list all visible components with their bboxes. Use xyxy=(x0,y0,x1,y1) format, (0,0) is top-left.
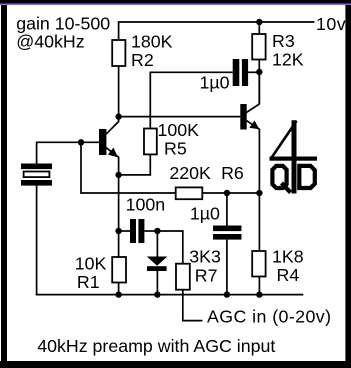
4QD logo: numeral 4 diagonal stroke xyxy=(270,121,296,160)
resistor R3 body xyxy=(252,34,265,60)
diode D1 triangle xyxy=(147,257,168,266)
wire R1 bottom to ground rail xyxy=(118,283,120,295)
wire transducer top to Q1 base xyxy=(37,142,81,163)
svg-text:R7: R7 xyxy=(195,265,218,285)
wire Q2 emitter node down to R4 xyxy=(258,193,260,251)
svg-text:180K: 180K xyxy=(131,32,173,52)
junction dot R4 on ground rail xyxy=(256,291,262,297)
svg-text:12K: 12K xyxy=(272,50,304,70)
junction dot D1 on ground rail xyxy=(154,291,160,297)
capacitor C3 100n left plate xyxy=(130,219,136,243)
resistor R6 body xyxy=(176,187,203,199)
junction dot R3/C1/Q2 collector node xyxy=(256,69,262,75)
transistor Q2 emitter lead xyxy=(247,121,260,193)
wire R7 bottom to AGC input stub xyxy=(183,290,203,321)
wire R2 bottom to Q1 collector node xyxy=(118,66,120,117)
svg-text:R2: R2 xyxy=(131,50,154,70)
transistor Q1 emitter arrowhead xyxy=(108,148,118,158)
wire C1 right plate to R3 bottom node xyxy=(248,71,259,73)
wire R4 bottom to ground rail xyxy=(258,277,260,295)
capacitor C1 1u0 left plate xyxy=(233,59,240,86)
junction dot 100n left node xyxy=(115,228,121,234)
svg-text:100n: 100n xyxy=(126,195,166,215)
frame top black band xyxy=(0,0,351,4)
svg-text:R1: R1 xyxy=(77,272,100,292)
frame bottom border xyxy=(0,361,351,368)
resistor R4 body xyxy=(252,251,265,277)
junction dot C2 on ground rail xyxy=(224,291,230,297)
4QD logo: numeral 4 apex wedge xyxy=(292,120,297,128)
diode D1 anode wire xyxy=(156,231,158,257)
svg-text:10K: 10K xyxy=(75,254,107,274)
transistor Q1 emitter lead xyxy=(106,148,119,175)
junction on 10v rail above R3 xyxy=(256,19,262,25)
wire R5 bottom elbow to Q1 emitter node xyxy=(119,154,151,175)
svg-text:10v: 10v xyxy=(316,14,346,34)
wire diode node to R7 top xyxy=(157,231,182,264)
svg-text:R6: R6 xyxy=(221,163,244,183)
junction dot C2 top node xyxy=(224,190,230,196)
wire input node B down to R6 xyxy=(81,142,176,193)
4QD logo: letter Q tail xyxy=(282,183,291,193)
svg-text:R3: R3 xyxy=(272,31,295,51)
transistor Q2 emitter arrowhead xyxy=(249,121,259,130)
junction dot diode top node xyxy=(154,228,160,234)
svg-text:100K: 100K xyxy=(158,120,200,140)
junction dot Q1 emitter node xyxy=(115,172,121,178)
4QD logo: letter Q xyxy=(272,166,286,188)
wire R3 top to rail xyxy=(258,22,260,34)
wire C1 left plate to R5 top xyxy=(150,72,232,128)
wire R6 right to Q2 emitter node xyxy=(202,192,259,194)
resistor R5 body xyxy=(144,129,157,155)
svg-text:1K8: 1K8 xyxy=(272,246,304,266)
diode D1 cathode wire to ground rail xyxy=(156,271,158,295)
svg-text:1µ0: 1µ0 xyxy=(190,203,220,223)
4QD logo: numeral 4 horizontal bar xyxy=(270,157,317,161)
svg-text:gain 10-500: gain 10-500 xyxy=(16,14,110,34)
piezo transducer crystal slab xyxy=(24,172,50,178)
frame purple line xyxy=(0,4,351,6)
4QD logo: letter D xyxy=(299,166,315,188)
svg-text:3K3: 3K3 xyxy=(189,247,221,267)
diode D1 cathode bar xyxy=(147,266,167,271)
wire to C3 left plate xyxy=(119,230,130,232)
wire node A to Q2 base xyxy=(119,116,241,118)
4QD logo: numeral 4 vertical stroke xyxy=(292,121,297,194)
transistor Q1 body bar xyxy=(99,129,106,155)
piezo transducer bottom plate xyxy=(21,180,52,186)
svg-text:R5: R5 xyxy=(164,138,187,158)
wire Q1 base to input node xyxy=(81,141,99,143)
svg-text:220K: 220K xyxy=(169,163,211,183)
svg-text:1µ0: 1µ0 xyxy=(200,72,230,92)
svg-text:AGC in (0-20v): AGC in (0-20v) xyxy=(207,306,331,326)
transistor Q1 collector lead xyxy=(106,117,119,135)
transistor Q2 collector lead xyxy=(247,72,260,112)
wire R3 bottom to Q2 collector xyxy=(258,60,260,105)
capacitor C3 100n right plate xyxy=(138,219,144,243)
junction dot Q2 emitter / R4 node xyxy=(256,190,262,196)
resistor R2 body xyxy=(112,40,125,66)
svg-text:@40kHz: @40kHz xyxy=(16,32,84,52)
resistor R7 body xyxy=(176,264,190,290)
junction dot input node B xyxy=(78,139,84,145)
frame left border xyxy=(1,5,7,368)
node +10v supply rail wire xyxy=(119,22,315,40)
wire C3 right plate to diode node xyxy=(144,230,157,232)
junction dot R1 on ground rail xyxy=(115,291,121,297)
capacitor C1 1u0 right plate xyxy=(242,59,248,86)
frame right border xyxy=(345,5,351,368)
piezo transducer top plate xyxy=(21,164,52,170)
wire C2 top xyxy=(226,193,228,226)
transistor Q2 body bar xyxy=(240,104,246,130)
wire transducer bottom to ground rail xyxy=(36,186,38,295)
resistor R1 top wire xyxy=(118,231,120,257)
wire Q1 emitter node down to 100n node xyxy=(118,175,120,231)
ground rail wire xyxy=(36,294,304,296)
svg-text:40kHz preamp with AGC input: 40kHz preamp with AGC input xyxy=(37,336,275,356)
wire C2 bottom to ground rail xyxy=(226,240,228,295)
resistor R1 body xyxy=(112,257,126,283)
node A junction dot (R2 / Q1 collector / Q2 base) xyxy=(115,113,121,119)
capacitor C2 1u0 bottom plate xyxy=(213,234,242,240)
svg-text:R4: R4 xyxy=(277,265,300,285)
capacitor C2 1u0 top plate xyxy=(213,226,242,232)
